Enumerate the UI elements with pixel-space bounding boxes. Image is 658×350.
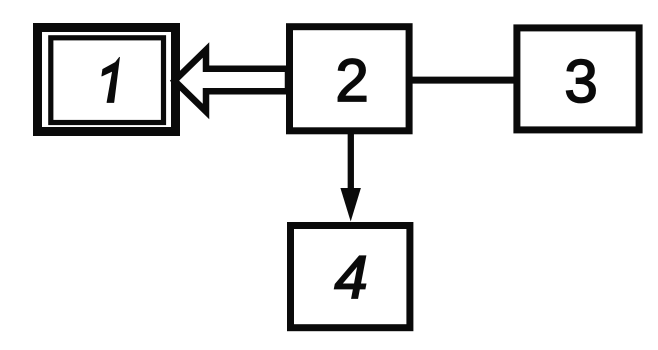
block 1 inner border	[51, 38, 164, 123]
svg-text:4: 4	[334, 244, 367, 311]
block 3	[517, 28, 639, 130]
wire from block 2 down to block 4	[348, 131, 354, 190]
svg-text:3: 3	[564, 48, 597, 115]
wire from block 3 to block 2	[409, 77, 517, 84]
hollow arrow from block 2 to block 1	[175, 50, 289, 112]
block 4	[291, 226, 410, 328]
arrowhead into block 4	[340, 188, 361, 222]
block 2	[290, 27, 410, 131]
svg-text:2: 2	[335, 47, 368, 114]
block 1 outer border	[38, 28, 176, 132]
label 1	[102, 57, 120, 102]
